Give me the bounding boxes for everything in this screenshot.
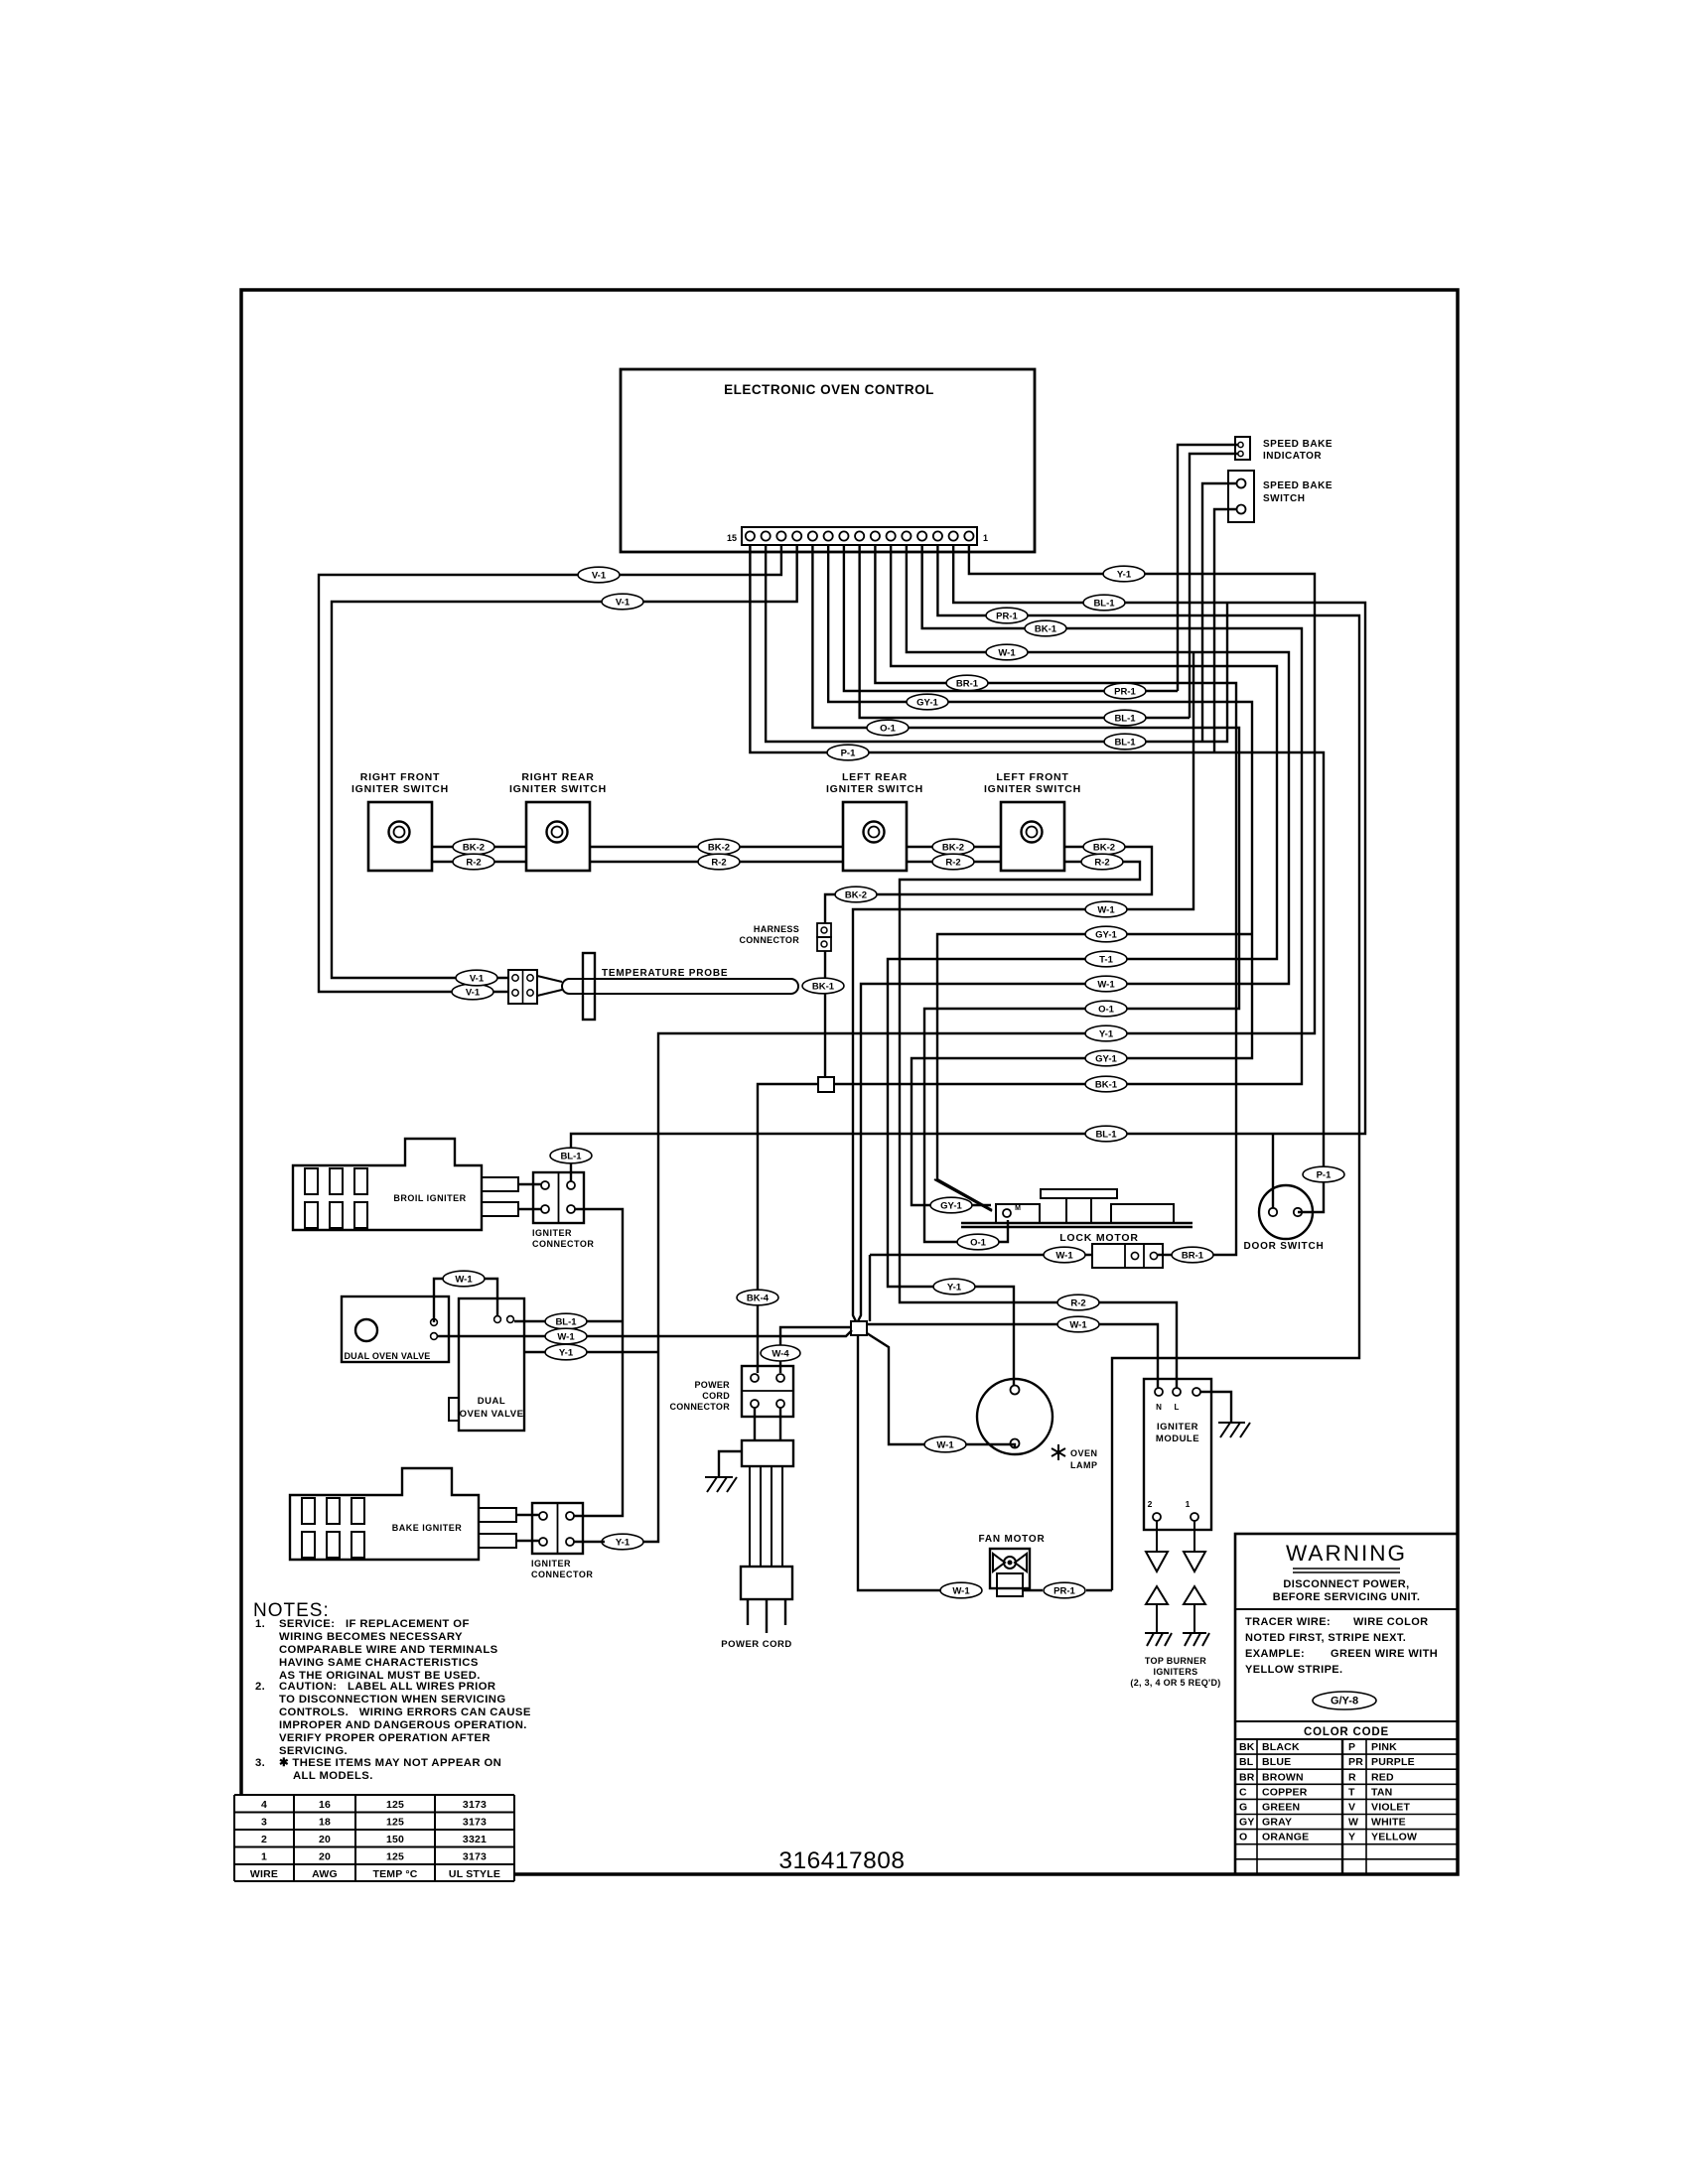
svg-text:ORANGE: ORANGE: [1262, 1832, 1309, 1843]
svg-text:P: P: [1348, 1741, 1355, 1753]
door switch S5: [1259, 1185, 1313, 1239]
wire label Y-1: [1103, 566, 1145, 582]
wire label BK-2: [698, 839, 740, 855]
lock motor lever: [934, 1179, 992, 1211]
svg-text:BR-1: BR-1: [956, 679, 979, 690]
wire label R-2: [932, 854, 974, 870]
wire door switch left pin up: [1272, 1134, 1274, 1207]
svg-text:PR-1: PR-1: [996, 612, 1018, 622]
svg-text:1: 1: [1186, 1499, 1191, 1509]
svg-text:W-1: W-1: [1097, 980, 1115, 991]
speed bake switch: [1228, 471, 1254, 522]
svg-text:2: 2: [1148, 1499, 1153, 1509]
warning box: [1235, 1534, 1458, 1874]
svg-text:BK-4: BK-4: [747, 1294, 770, 1304]
wire label BL-1: [545, 1313, 587, 1329]
svg-text:3173: 3173: [463, 1851, 487, 1863]
svg-text:BROWN: BROWN: [1262, 1771, 1304, 1783]
border frame: [241, 290, 1458, 1874]
svg-text:CONNECTOR: CONNECTOR: [532, 1239, 594, 1249]
svg-text:MODULE: MODULE: [1156, 1433, 1199, 1444]
lock motor assembly: [961, 1222, 1193, 1224]
svg-text:20: 20: [319, 1834, 331, 1845]
lock motor bottom box: [1092, 1244, 1163, 1268]
wire label GY-1: [930, 1197, 972, 1213]
svg-text:BL-1: BL-1: [555, 1317, 577, 1328]
pin 12: [792, 531, 801, 540]
svg-text:4: 4: [261, 1799, 267, 1811]
svg-text:R-2: R-2: [1070, 1298, 1085, 1309]
svg-text:BK-2: BK-2: [942, 843, 964, 854]
svg-text:WHITE: WHITE: [1371, 1817, 1406, 1829]
svg-text:BL-1: BL-1: [560, 1152, 582, 1162]
svg-text:R: R: [1348, 1771, 1356, 1783]
wire label O-1: [957, 1234, 999, 1250]
svg-text:IMPROPER AND DANGEROUS OPERATI: IMPROPER AND DANGEROUS OPERATION.: [279, 1719, 527, 1731]
wire broil connector lower right to valves/bake: [574, 1209, 623, 1516]
svg-text:BR: BR: [1239, 1771, 1255, 1783]
wire label BK-1: [802, 978, 844, 994]
wire label R-2: [698, 854, 740, 870]
svg-text:OVEN: OVEN: [1070, 1448, 1098, 1458]
bake igniter connector J3: [532, 1503, 583, 1554]
wire label W-1: [1085, 901, 1127, 917]
wire speed bake switch pin2: [1214, 509, 1237, 752]
svg-text:EXAMPLE:: EXAMPLE:: [1245, 1648, 1305, 1660]
svg-text:BROIL IGNITER: BROIL IGNITER: [393, 1193, 466, 1203]
wire label R-2: [1057, 1295, 1099, 1310]
svg-text:BK-2: BK-2: [708, 843, 730, 854]
wire W-1 lock motor: [870, 1254, 1092, 1256]
svg-text:PINK: PINK: [1371, 1741, 1397, 1753]
top burner igniter 1 connector arrow (down): [1146, 1552, 1168, 1571]
wire label BL-1: [1083, 595, 1125, 611]
power cord body: [754, 1408, 756, 1440]
wire label T-1: [1085, 951, 1127, 967]
wire label P-1: [827, 745, 869, 760]
svg-text:WARNING: WARNING: [1286, 1541, 1407, 1566]
wire P-1 net pin15 to door switch: [750, 545, 1324, 1212]
svg-text:2.: 2.: [255, 1681, 265, 1693]
svg-text:SPEED BAKE: SPEED BAKE: [1263, 480, 1333, 491]
pin 11: [808, 531, 817, 540]
wire speed bake switch pin1: [1202, 483, 1237, 742]
pin 14: [762, 531, 771, 540]
svg-text:GREEN: GREEN: [1262, 1802, 1300, 1814]
svg-text:✱ THESE ITEMS MAY NOT APPEAR O: ✱ THESE ITEMS MAY NOT APPEAR ON: [279, 1757, 501, 1769]
svg-text:PR: PR: [1348, 1756, 1363, 1768]
wire label W-1: [545, 1328, 587, 1344]
svg-text:3: 3: [261, 1817, 267, 1829]
wire BL-1 net pin2/pin14 rows 607,747,1142, broil igniter: [571, 545, 1365, 1181]
svg-text:3321: 3321: [463, 1834, 487, 1845]
wire label R-2: [453, 854, 494, 870]
wire label O-1: [1085, 1001, 1127, 1017]
svg-text:BK-2: BK-2: [845, 890, 867, 901]
svg-text:2: 2: [261, 1834, 267, 1845]
pin 10: [824, 531, 833, 540]
harness connector J1: [817, 923, 831, 937]
wire label BK-2: [835, 887, 877, 902]
svg-text:TO DISCONNECTION WHEN SERVICIN: TO DISCONNECTION WHEN SERVICING: [279, 1694, 506, 1706]
top burner igniter 2 ground: [1183, 1633, 1209, 1646]
wire BK-1 net pin4 to node: [834, 545, 1302, 1084]
wire igniter module aux to ground: [1200, 1392, 1231, 1423]
svg-text:DUAL: DUAL: [478, 1396, 505, 1407]
temperature probe body: [537, 976, 562, 982]
svg-text:O-1: O-1: [1098, 1005, 1115, 1016]
svg-text:IGNITER SWITCH: IGNITER SWITCH: [984, 783, 1081, 795]
svg-text:BK-1: BK-1: [1095, 1080, 1118, 1091]
svg-text:LOCK MOTOR: LOCK MOTOR: [1059, 1232, 1139, 1244]
bake igniter E2: [290, 1468, 479, 1560]
svg-text:W-1: W-1: [936, 1440, 954, 1451]
bake igniter terminals: [479, 1508, 516, 1522]
svg-text:IGNITERS: IGNITERS: [1154, 1667, 1198, 1677]
wire igniter module pin 2 to top burner igniter 1: [1156, 1521, 1158, 1552]
wire Y-1 valve row: [524, 1351, 658, 1353]
svg-text:W-1: W-1: [1069, 1320, 1087, 1331]
wire T-1 net pin6 rows 671,966,1296 to oven lamp: [888, 545, 1277, 1386]
svg-text:T: T: [1348, 1786, 1355, 1798]
wire label BK-2: [453, 839, 494, 855]
wire label BK-2: [1083, 839, 1125, 855]
wire label BR-1: [946, 675, 988, 691]
svg-text:BR-1: BR-1: [1182, 1251, 1204, 1262]
temperature probe connector: [508, 970, 537, 1004]
electronic oven control U1: [621, 369, 1035, 552]
svg-text:IGNITER: IGNITER: [531, 1559, 571, 1569]
svg-text:G: G: [1239, 1802, 1247, 1814]
svg-text:150: 150: [386, 1834, 404, 1845]
svg-text:CAUTION: LABEL ALL WIRES PRI: CAUTION: LABEL ALL WIRES PRIOR: [279, 1681, 495, 1693]
ground at power cord: [719, 1451, 742, 1477]
svg-text:OVEN VALVE: OVEN VALVE: [460, 1409, 524, 1420]
svg-text:1: 1: [261, 1851, 267, 1863]
svg-text:16: 16: [319, 1799, 331, 1811]
svg-text:HARNESS: HARNESS: [754, 924, 799, 934]
left rear igniter switch S3: [843, 802, 907, 871]
svg-text:CONTROLS. WIRING ERRORS CAN: CONTROLS. WIRING ERRORS CAN CAUSE: [279, 1706, 531, 1718]
svg-text:O-1: O-1: [880, 724, 897, 735]
svg-text:L: L: [1175, 1403, 1180, 1412]
svg-text:V-1: V-1: [470, 974, 485, 985]
svg-text:18: 18: [319, 1817, 331, 1829]
junction node: [851, 1321, 867, 1335]
wire label W-1: [1057, 1316, 1099, 1332]
svg-text:SPEED BAKE: SPEED BAKE: [1263, 439, 1333, 450]
pin 8: [855, 531, 864, 540]
svg-text:W: W: [1348, 1817, 1358, 1829]
svg-text:CONNECTOR: CONNECTOR: [739, 935, 799, 945]
oven lamp DS1: [977, 1379, 1052, 1454]
svg-text:TEMPERATURE PROBE: TEMPERATURE PROBE: [602, 968, 728, 979]
svg-text:W-1: W-1: [1097, 905, 1115, 916]
wire label V-1: [452, 984, 493, 1000]
svg-text:C: C: [1239, 1786, 1247, 1798]
power cord wires: [749, 1466, 751, 1567]
svg-text:TAN: TAN: [1371, 1786, 1392, 1798]
svg-text:IGNITER SWITCH: IGNITER SWITCH: [351, 783, 449, 795]
svg-text:RIGHT FRONT: RIGHT FRONT: [360, 771, 441, 783]
wire BL-1 valve row: [514, 1320, 623, 1322]
svg-text:V-1: V-1: [592, 571, 607, 582]
svg-text:BL-1: BL-1: [1114, 714, 1136, 725]
wire label O-1: [867, 720, 909, 736]
wire label BK-1: [1085, 1076, 1127, 1092]
wire label BL-1: [1085, 1126, 1127, 1142]
svg-text:W-1: W-1: [998, 648, 1016, 659]
wire BR-1 net pin7 to lock motor: [875, 545, 1236, 1255]
svg-text:BEFORE SERVICING UNIT.: BEFORE SERVICING UNIT.: [1273, 1591, 1421, 1603]
pin 7: [871, 531, 880, 540]
wire igniter module pin 1 to top burner igniter 2: [1193, 1521, 1195, 1552]
svg-text:WIRING BECOMES NECESSARY: WIRING BECOMES NECESSARY: [279, 1631, 463, 1643]
dual oven valve B tall: [459, 1298, 524, 1431]
dual oven valve A: [342, 1297, 449, 1362]
wire W-1 net pin5 rows 657,991,916 to junction: [858, 545, 1289, 1321]
wire label Y-1: [545, 1344, 587, 1360]
right front igniter switch S1: [368, 802, 432, 871]
svg-text:BK-2: BK-2: [1093, 843, 1115, 854]
svg-text:CORD: CORD: [702, 1391, 730, 1401]
igniter module U2: [1144, 1379, 1211, 1530]
wire label W-1: [924, 1436, 966, 1452]
wire speed bake indicator pin2: [1190, 454, 1238, 718]
svg-text:VIOLET: VIOLET: [1371, 1802, 1411, 1814]
svg-text:ELECTRONIC OVEN CONTROL: ELECTRONIC OVEN CONTROL: [724, 382, 934, 397]
pin 2: [949, 531, 958, 540]
svg-text:V-1: V-1: [466, 988, 481, 999]
svg-text:TEMP °C: TEMP °C: [372, 1868, 417, 1880]
wire label P-1: [1303, 1166, 1344, 1182]
wire label W-4: [761, 1345, 800, 1361]
svg-text:Y-1: Y-1: [1099, 1029, 1114, 1040]
svg-text:RED: RED: [1371, 1771, 1394, 1783]
svg-text:LEFT REAR: LEFT REAR: [842, 771, 908, 783]
svg-text:GY-1: GY-1: [940, 1201, 962, 1212]
svg-text:3.: 3.: [255, 1757, 265, 1769]
left front igniter switch S4: [1001, 802, 1064, 871]
wire label PR-1: [986, 608, 1028, 623]
svg-text:UL STYLE: UL STYLE: [449, 1868, 500, 1880]
svg-text:3173: 3173: [463, 1799, 487, 1811]
wire junction down to fan motor row W-1: [858, 1335, 945, 1590]
top burner igniter 1 arrow (up): [1146, 1586, 1168, 1604]
wire BK-1 harness to node: [824, 951, 826, 1077]
right rear igniter switch S2: [526, 802, 590, 871]
wire BK-2 to harness connector: [825, 847, 1152, 923]
svg-text:V: V: [1348, 1802, 1355, 1814]
svg-text:IGNITER SWITCH: IGNITER SWITCH: [826, 783, 923, 795]
svg-text:125: 125: [386, 1817, 404, 1829]
pin 13: [776, 531, 785, 540]
wire label G/Y-8: [1313, 1692, 1376, 1709]
svg-text:BL-1: BL-1: [1114, 738, 1136, 749]
power cord connector J4: [742, 1366, 793, 1417]
top burner igniter 2 stem: [1193, 1604, 1195, 1633]
svg-text:R-2: R-2: [711, 858, 726, 869]
wire W-1 over valves: [434, 1279, 445, 1322]
wire PR-1 fan motor: [1023, 1589, 1043, 1591]
wire BK-2 chain: [432, 846, 526, 848]
svg-text:IGNITER: IGNITER: [532, 1228, 572, 1238]
wire label Y-1: [1085, 1025, 1127, 1041]
wire V-1 net pin13 to temperature probe lower: [319, 545, 781, 992]
power cord prongs: [747, 1599, 749, 1625]
wire label BL-1: [1104, 734, 1146, 750]
svg-text:BLACK: BLACK: [1262, 1741, 1300, 1753]
connector strip of U1: [742, 527, 977, 545]
svg-text:125: 125: [386, 1799, 404, 1811]
wire label BL-1: [1104, 710, 1146, 726]
svg-text:Y: Y: [1348, 1832, 1355, 1843]
wire R-2 chain to igniter module L: [432, 861, 526, 863]
svg-text:GY-1: GY-1: [1095, 930, 1117, 941]
svg-text:SERVICE: IF REPLACEMENT OF: SERVICE: IF REPLACEMENT OF: [279, 1618, 470, 1630]
wire bake connector lower right Y-1: [574, 1541, 605, 1543]
wire W-4 into connector: [780, 1327, 851, 1373]
svg-text:Y-1: Y-1: [947, 1283, 962, 1294]
broil igniter connector J2: [533, 1172, 584, 1223]
svg-text:WIRE COLOR: WIRE COLOR: [1353, 1616, 1429, 1628]
svg-text:Y-1: Y-1: [616, 1538, 631, 1549]
svg-text:(2, 3, 4 OR 5 REQ'D): (2, 3, 4 OR 5 REQ'D): [1130, 1678, 1220, 1688]
svg-text:COLOR CODE: COLOR CODE: [1304, 1726, 1389, 1738]
wire label GY-1: [1085, 1050, 1127, 1066]
wire W-1 valve row to junction: [437, 1330, 852, 1336]
svg-text:VERIFY PROPER OPERATION AFTER: VERIFY PROPER OPERATION AFTER: [279, 1732, 491, 1744]
svg-text:W-1: W-1: [557, 1332, 575, 1343]
svg-text:TOP BURNER: TOP BURNER: [1145, 1656, 1206, 1666]
svg-text:DUAL OVEN VALVE: DUAL OVEN VALVE: [344, 1351, 430, 1361]
svg-text:R-2: R-2: [1094, 858, 1109, 869]
svg-text:3173: 3173: [463, 1817, 487, 1829]
wire label Y-1: [602, 1534, 643, 1550]
wire V-1 net pin12 to temperature probe upper: [332, 545, 797, 978]
svg-text:W-1: W-1: [455, 1275, 473, 1286]
svg-text:O-1: O-1: [970, 1238, 987, 1249]
asterisk: [1052, 1444, 1065, 1460]
svg-text:HAVING SAME CHARACTERISTICS: HAVING SAME CHARACTERISTICS: [279, 1657, 479, 1669]
svg-text:ALL MODELS.: ALL MODELS.: [293, 1770, 373, 1782]
svg-text:N: N: [1156, 1403, 1162, 1412]
svg-text:IGNITER: IGNITER: [1157, 1422, 1198, 1433]
svg-text:INDICATOR: INDICATOR: [1263, 451, 1322, 462]
wire label W-1: [443, 1271, 485, 1287]
broil igniter E1: [293, 1139, 482, 1230]
svg-text:DISCONNECT POWER,: DISCONNECT POWER,: [1283, 1578, 1409, 1590]
svg-text:YELLOW STRIPE.: YELLOW STRIPE.: [1245, 1664, 1343, 1676]
pin 6: [887, 531, 896, 540]
wire label Y-1: [933, 1279, 975, 1295]
svg-text:POWER CORD: POWER CORD: [721, 1639, 792, 1650]
svg-text:Y-1: Y-1: [559, 1348, 574, 1359]
svg-text:V-1: V-1: [616, 598, 631, 609]
svg-text:P-1: P-1: [1317, 1170, 1333, 1181]
svg-text:CONNECTOR: CONNECTOR: [669, 1402, 730, 1412]
svg-text:COPPER: COPPER: [1262, 1786, 1308, 1798]
wire PR-1 net pin3 to fan motor: [937, 545, 1359, 1590]
svg-text:G/Y-8: G/Y-8: [1331, 1696, 1358, 1707]
svg-text:O: O: [1239, 1832, 1247, 1843]
wire label W-1: [1044, 1247, 1085, 1263]
svg-text:125: 125: [386, 1851, 404, 1863]
svg-text:SWITCH: SWITCH: [1263, 493, 1305, 504]
svg-text:BK: BK: [1239, 1741, 1255, 1753]
svg-text:LEFT FRONT: LEFT FRONT: [996, 771, 1068, 783]
pin 3: [933, 531, 942, 540]
svg-text:WIRE: WIRE: [250, 1868, 278, 1880]
svg-text:BLUE: BLUE: [1262, 1756, 1291, 1768]
svg-text:M: M: [1015, 1205, 1021, 1212]
pin 1: [964, 531, 973, 540]
svg-text:BAKE IGNITER: BAKE IGNITER: [392, 1523, 463, 1533]
svg-text:PR-1: PR-1: [1053, 1586, 1075, 1597]
svg-text:GY: GY: [1239, 1817, 1255, 1829]
svg-text:P-1: P-1: [841, 749, 857, 759]
svg-text:GRAY: GRAY: [1262, 1817, 1292, 1829]
svg-text:BK-1: BK-1: [1035, 624, 1057, 635]
svg-text:BK-1: BK-1: [812, 982, 835, 993]
svg-text:SERVICING.: SERVICING.: [279, 1745, 348, 1757]
wire label W-1: [940, 1582, 982, 1598]
wire gauge table: [234, 1794, 514, 1796]
svg-text:Y-1: Y-1: [1117, 570, 1132, 581]
top burner igniter 1 ground: [1145, 1633, 1172, 1646]
wire label W-1: [986, 644, 1028, 660]
svg-text:RIGHT REAR: RIGHT REAR: [521, 771, 594, 783]
wire speed bake indicator pin1: [1178, 445, 1238, 691]
pin 5: [902, 531, 911, 540]
wire PR-1 net pin9 to speed bake indicator: [844, 545, 1178, 691]
svg-text:IGNITER SWITCH: IGNITER SWITCH: [509, 783, 607, 795]
svg-text:CONNECTOR: CONNECTOR: [531, 1570, 593, 1579]
top burner igniter 1 stem: [1156, 1604, 1158, 1633]
svg-text:GY-1: GY-1: [916, 698, 938, 709]
wire label V-1: [578, 567, 620, 583]
wire label R-2: [1081, 854, 1123, 870]
svg-text:PURPLE: PURPLE: [1371, 1756, 1415, 1768]
svg-text:TRACER WIRE:: TRACER WIRE:: [1245, 1616, 1331, 1628]
svg-text:DOOR SWITCH: DOOR SWITCH: [1243, 1241, 1324, 1252]
pin 15: [746, 531, 755, 540]
svg-text:PR-1: PR-1: [1114, 687, 1136, 698]
svg-text:BL-1: BL-1: [1095, 1130, 1117, 1141]
top burner igniter 2 arrow (up): [1184, 1586, 1205, 1604]
wire label V-1: [456, 970, 497, 986]
svg-text:COMPARABLE WIRE AND TERMINALS: COMPARABLE WIRE AND TERMINALS: [279, 1644, 498, 1656]
svg-text:YELLOW: YELLOW: [1371, 1832, 1417, 1843]
wire label W-1: [1085, 976, 1127, 992]
svg-text:W-1: W-1: [1055, 1251, 1073, 1262]
wire label GY-1: [1085, 926, 1127, 942]
broil igniter terminals: [482, 1177, 518, 1191]
wire Y-1 net pin1 to bake igniter connector: [640, 545, 1315, 1542]
speed bake indicator: [1235, 437, 1250, 460]
wire label V-1: [602, 594, 643, 610]
svg-text:GY-1: GY-1: [1095, 1054, 1117, 1065]
pin 9: [839, 531, 848, 540]
svg-text:POWER: POWER: [694, 1380, 730, 1390]
pin 4: [917, 531, 926, 540]
svg-text:BL: BL: [1239, 1756, 1254, 1768]
wire label BK-1: [1025, 620, 1066, 636]
wire label BR-1: [1172, 1247, 1213, 1263]
wire label BK-2: [932, 839, 974, 855]
svg-text:BK-2: BK-2: [463, 843, 485, 854]
wire node to power cord connector BK-4: [758, 1084, 818, 1373]
